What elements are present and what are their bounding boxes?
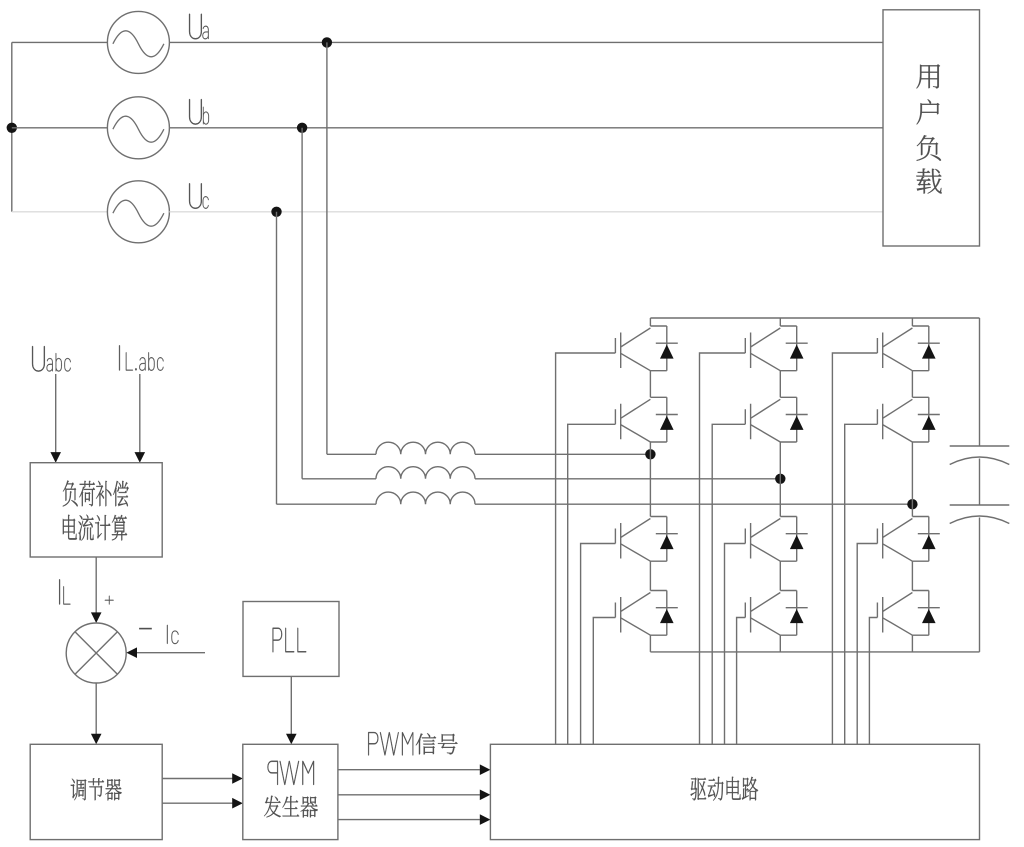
- wire Q11 gate lead: [857, 544, 877, 745]
- wire DC link top: [979, 318, 981, 446]
- transistor Q2 (IGBT leg 1 pos 2): [615, 397, 666, 442]
- label PLL: [273, 628, 307, 653]
- label plus sign: [105, 596, 114, 605]
- block: PLL: [243, 602, 339, 677]
- wire inductor L3 output to bridge: [475, 503, 912, 505]
- node bridge leg 1 midpoint: [645, 449, 655, 459]
- summing junction: [66, 623, 126, 683]
- wire regulator to PWM arrow 2: [162, 798, 243, 809]
- wire DC link bottom: [979, 518, 981, 652]
- wire Q12 gate lead: [869, 618, 877, 745]
- wire Q1 gate lead: [556, 353, 616, 744]
- wire IL.abc input arrow: [135, 374, 146, 463]
- wire phase B left segment: [12, 127, 108, 129]
- wire phase B right segment: [169, 127, 883, 129]
- node phase B tap: [297, 123, 307, 133]
- wire phase C tap vertical: [276, 212, 278, 504]
- diode D7 (anti-parallel): [786, 517, 808, 562]
- label 驱动电路: [691, 777, 759, 801]
- label minus sign: [139, 628, 152, 630]
- diode D9 (anti-parallel): [918, 326, 940, 371]
- label Ub: [189, 99, 209, 125]
- transistor Q12 (IGBT leg 3 pos 4): [877, 591, 928, 636]
- diode D10 (anti-parallel): [918, 397, 940, 442]
- wire Q9 gate lead: [832, 353, 877, 744]
- diode D6 (anti-parallel): [786, 397, 808, 442]
- wire Uabc input arrow: [50, 374, 61, 463]
- diode D3 (anti-parallel): [656, 517, 678, 562]
- wire Q5 gate lead: [700, 353, 746, 744]
- wire Q8 gate lead: [737, 618, 746, 745]
- wire phase A right segment: [169, 41, 883, 43]
- diode D4 (anti-parallel): [656, 591, 678, 636]
- transistor Q10 (IGBT leg 3 pos 2): [877, 397, 928, 442]
- label load box char 载: [916, 169, 941, 194]
- label PWM信号: [368, 732, 457, 755]
- label load box char 负: [917, 135, 941, 161]
- label 调节器: [71, 778, 122, 800]
- label Ic: [167, 625, 179, 644]
- transistor Q5 (IGBT leg 2 pos 1): [745, 326, 796, 371]
- inductor L3 (phase C): [376, 492, 475, 504]
- transistor Q4 (IGBT leg 1 pos 4): [615, 591, 666, 636]
- label 发生器: [264, 796, 318, 818]
- diode D11 (anti-parallel): [918, 517, 940, 562]
- node bridge leg 2 midpoint: [775, 474, 785, 484]
- wire regulator to PWM arrow 1: [162, 773, 243, 784]
- transistor Q7 (IGBT leg 2 pos 3): [745, 517, 796, 562]
- wire PWM signal line 1: [338, 764, 491, 775]
- wire inductor L1 input: [327, 453, 376, 455]
- AC source Ua: [107, 11, 169, 73]
- node bridge leg 3 midpoint: [907, 499, 917, 509]
- transistor Q9 (IGBT leg 3 pos 1): [877, 326, 928, 371]
- inductor L2 (phase B): [376, 467, 475, 479]
- transistor Q8 (IGBT leg 2 pos 4): [745, 591, 796, 636]
- wire phase A tap vertical: [326, 42, 328, 454]
- block: regulator (调节器): [30, 744, 162, 839]
- label Uc: [189, 183, 209, 209]
- block: load compensation current calculation (负荷补偿电流计算): [30, 463, 162, 557]
- node phase A tap: [322, 37, 332, 47]
- node left bus / phase B junction: [7, 123, 17, 133]
- AC source Ub sine mark: [113, 116, 164, 142]
- wire Q10 gate lead: [845, 424, 878, 744]
- wire phase C left segment: [12, 211, 108, 213]
- label load box char 户: [917, 99, 940, 124]
- transistor Q1 (IGBT leg 1 pos 1): [615, 326, 666, 371]
- label PWM (in box): [268, 761, 315, 785]
- block: drive circuit (驱动电路): [490, 744, 979, 839]
- label Uabc: [32, 346, 71, 372]
- diode D2 (anti-parallel): [656, 397, 678, 442]
- block: user load (用户负载): [883, 10, 980, 246]
- wire PWM signal line 3: [338, 814, 491, 825]
- wire Q3 gate lead: [581, 544, 616, 745]
- wire PLL to PWM arrow: [286, 676, 297, 744]
- capacitor C1: [950, 446, 1010, 465]
- label IL.abc: [119, 345, 163, 370]
- transistor Q11 (IGBT leg 3 pos 3): [877, 517, 928, 562]
- capacitor C2: [950, 505, 1010, 524]
- transistor Q6 (IGBT leg 2 pos 2): [745, 397, 796, 442]
- diode D1 (anti-parallel): [656, 326, 678, 371]
- diode D12 (anti-parallel): [918, 591, 940, 636]
- diode D8 (anti-parallel): [786, 591, 808, 636]
- label Ua: [189, 14, 209, 40]
- wire Q7 gate lead: [725, 544, 746, 745]
- diode D5 (anti-parallel): [786, 326, 808, 371]
- wire Ic input arrow: [126, 647, 205, 658]
- wire inductor L1 output to bridge: [475, 453, 650, 455]
- wire DC bus top: [650, 317, 979, 319]
- summing junction cross: [75, 632, 117, 674]
- wire phase C right segment (light): [169, 211, 883, 213]
- wire Q6 gate lead: [712, 424, 745, 744]
- AC source Ub: [107, 97, 169, 159]
- transistor Q3 (IGBT leg 1 pos 3): [615, 517, 666, 562]
- inductor L1 (phase A): [376, 442, 475, 454]
- wire bridge leg 2 vertical segments: [779, 318, 781, 652]
- wire Q2 gate lead: [568, 424, 616, 744]
- wire inductor L2 output to bridge: [475, 478, 780, 480]
- AC source Ua sine mark: [113, 31, 164, 57]
- wire inductor L3 input: [277, 503, 377, 505]
- label load box char 用: [916, 64, 940, 88]
- wire DC bus bottom: [650, 651, 979, 653]
- wire phase B tap vertical: [301, 128, 303, 479]
- wire bridge leg 1 vertical segments: [649, 318, 651, 652]
- label calc box line2 电流计算: [63, 515, 127, 541]
- label IL: [59, 579, 70, 604]
- block: PWM generator (PWM发生器): [243, 744, 338, 839]
- wire calc box to summer arrow: [91, 557, 102, 623]
- wire PWM signal line 2: [338, 790, 491, 801]
- wire bridge leg 3 vertical segments: [911, 318, 913, 652]
- wire summer to regulator arrow: [91, 683, 102, 744]
- node phase C tap: [271, 207, 281, 217]
- wire inductor L2 input: [302, 478, 376, 480]
- wire Q4 gate lead: [593, 618, 615, 745]
- wire phase A left segment: [12, 41, 108, 43]
- wire left bus vertical: [11, 42, 13, 211]
- AC source Uc: [107, 181, 169, 243]
- label calc box line1 负荷补偿: [63, 481, 129, 507]
- wire C1 to C2: [979, 459, 981, 506]
- AC source Uc sine mark: [113, 200, 164, 226]
